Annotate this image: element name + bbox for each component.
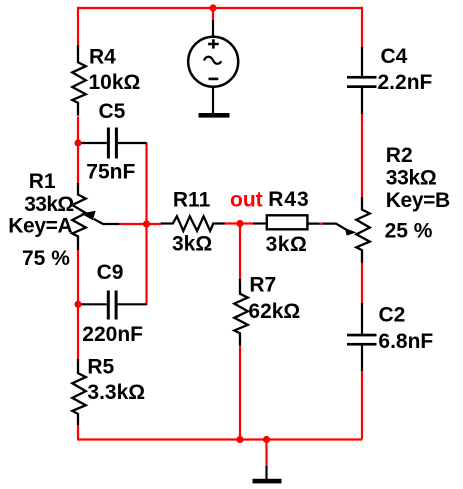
bottom ground lead: [265, 466, 267, 479]
wire R11 to R43 red part: [225, 222, 254, 224]
svg-text:R2: R2: [386, 144, 413, 167]
svg-text:Key=A: Key=A: [8, 214, 72, 237]
wire out node vertical: [239, 224, 241, 440]
potentiometer R2: [356, 197, 370, 262]
capacitor C2 leads: [361, 303, 363, 371]
svg-text:2.2nF: 2.2nF: [378, 71, 433, 94]
svg-text:R7: R7: [249, 273, 276, 296]
resistor R11: [161, 216, 225, 231]
svg-text:C2: C2: [379, 304, 406, 327]
resistor R7: [234, 279, 248, 346]
svg-text:3.3kΩ: 3.3kΩ: [87, 381, 145, 404]
svg-text:25 %: 25 %: [385, 219, 433, 242]
junction node top: [209, 4, 216, 11]
svg-text:3kΩ: 3kΩ: [172, 233, 212, 256]
potentiometer R1 wiper wire: [94, 219, 120, 224]
wire bottom ground stub: [265, 440, 267, 468]
junction node C9 left: [74, 301, 81, 308]
capacitor C9: [107, 291, 110, 320]
potentiometer R1 wiper arrowhead: [81, 211, 96, 221]
bottom ground bar: [253, 479, 282, 484]
junction node out: [236, 220, 243, 227]
red connection tick on wiper wire: [320, 223, 323, 225]
capacitor C5: [107, 128, 110, 159]
svg-text:75nF: 75nF: [86, 160, 135, 183]
capacitor C4 leads: [361, 47, 363, 114]
wire wiper horizontal red part: [119, 223, 162, 225]
AC source minus sign: [209, 78, 219, 81]
junction node C5 left: [74, 139, 81, 146]
junction node bottom R7: [236, 436, 243, 443]
svg-text:220nF: 220nF: [82, 323, 143, 346]
resistor R4: [72, 45, 86, 115]
svg-text:10kΩ: 10kΩ: [89, 71, 141, 94]
svg-text:R43: R43: [268, 188, 309, 211]
AC source bottom lead: [212, 88, 214, 114]
resistor R5: [72, 359, 86, 425]
wire source stub: [212, 8, 214, 21]
wire C5-C9 right riser: [145, 143, 147, 306]
svg-text:33kΩ: 33kΩ: [24, 193, 73, 216]
svg-text:R1: R1: [29, 170, 56, 193]
capacitor C4: [347, 76, 377, 79]
wire R43 to R2 wiper: [307, 224, 346, 230]
svg-text:75 %: 75 %: [22, 247, 70, 270]
AC source plus sign: [208, 39, 219, 48]
svg-text:out: out: [230, 189, 263, 212]
potentiometer R1: [72, 183, 86, 250]
resistor R43 box: [267, 215, 308, 229]
svg-text:Key=B: Key=B: [386, 189, 450, 212]
wire bottom horizontal net: [77, 438, 362, 440]
potentiometer R2 wiper arrowhead: [345, 228, 357, 236]
AC source top lead: [212, 20, 214, 36]
svg-text:C5: C5: [99, 100, 126, 123]
junction node wiper riser: [143, 220, 150, 227]
svg-text:6.8nF: 6.8nF: [378, 330, 433, 353]
junction node bottom ground: [263, 436, 270, 443]
wire left vertical net segments: [77, 7, 79, 440]
svg-text:33kΩ: 33kΩ: [386, 166, 437, 189]
AC source sine symbol: [204, 57, 221, 64]
svg-text:C4: C4: [381, 45, 408, 68]
svg-text:62kΩ: 62kΩ: [248, 300, 300, 323]
capacitor C5 leads: [79, 142, 147, 144]
capacitor C9 leads: [79, 303, 147, 305]
svg-text:C9: C9: [97, 261, 124, 284]
ground under source: [199, 113, 230, 118]
svg-text:R4: R4: [89, 45, 116, 68]
AC source V1 circle: [188, 37, 238, 87]
svg-text:R11: R11: [173, 188, 211, 211]
resistor R43 left lead: [253, 222, 267, 224]
svg-text:R5: R5: [87, 356, 114, 379]
svg-text:3kΩ: 3kΩ: [266, 233, 308, 256]
wire right vertical net segments: [361, 7, 363, 440]
capacitor C2: [347, 334, 377, 337]
wire top horizontal net: [77, 7, 363, 9]
